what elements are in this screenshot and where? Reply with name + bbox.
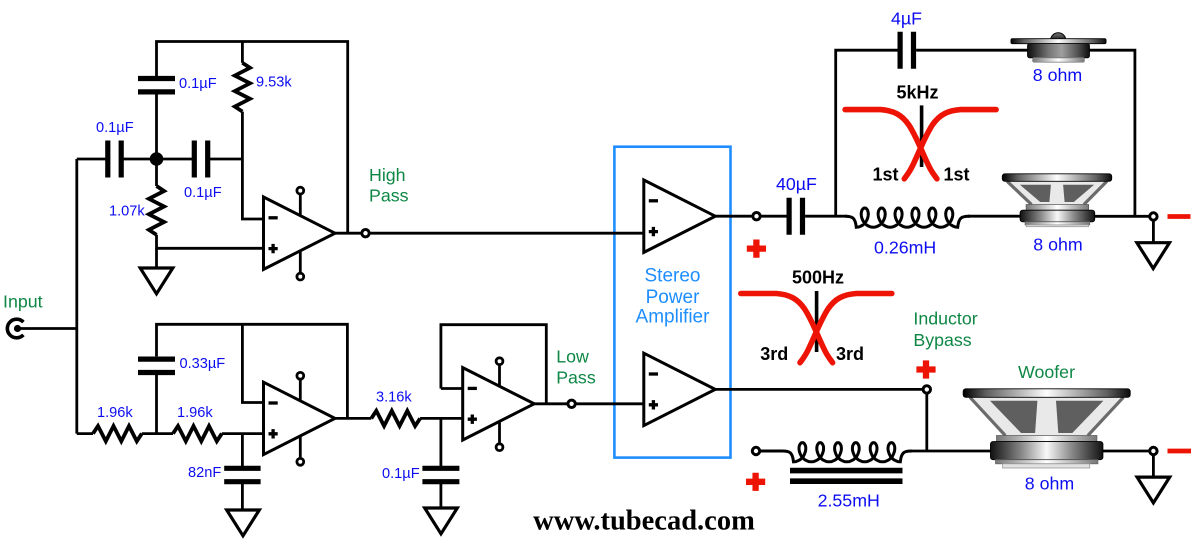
op-amp U1 (high-pass): [264, 197, 336, 269]
svg-text:8 ohm: 8 ohm: [1033, 234, 1082, 254]
node HP output circle: [362, 230, 369, 237]
crossover marker 5kHz vertical line: [920, 105, 924, 167]
svg-text:High: High: [369, 165, 406, 185]
svg-text:0.1µF: 0.1µF: [96, 120, 134, 136]
wire LP1 feedback rail: [157, 324, 348, 418]
curve 500Hz high-pass slope: [800, 294, 892, 363]
ground speaker return (bottom): [1137, 477, 1170, 503]
wire R3 to node A2: [142, 432, 173, 435]
ground LP1: [227, 510, 260, 536]
capacitor C2 0.1uF: [194, 141, 207, 178]
curve 5kHz high-pass slope: [904, 110, 996, 179]
wire ground lead HP: [155, 248, 158, 268]
svg-text:1st: 1st: [943, 165, 969, 185]
amplifier A2 (bottom channel): [644, 353, 716, 425]
wire R4 to non-inverting input: [222, 432, 264, 435]
label plus (woofer + terminal): [746, 473, 765, 491]
wire bus to R3: [77, 432, 93, 435]
wire A1 output: [715, 215, 752, 218]
wire U3 output: [533, 402, 567, 405]
curve 5kHz low-pass slope: [845, 110, 937, 179]
speaker tweeter 8 ohm: [1051, 33, 1066, 40]
svg-text:0.1µF: 0.1µF: [184, 185, 222, 201]
svg-text:4µF: 4µF: [891, 8, 922, 28]
wire U3 feedback rail: [441, 325, 546, 404]
svg-text:1st: 1st: [872, 165, 898, 185]
wire C5 to ground: [241, 484, 244, 511]
input jack: [7, 319, 23, 338]
node A junction dot: [150, 152, 164, 166]
resistor R3 1.96k: [93, 426, 142, 441]
svg-text:1.07k: 1.07k: [109, 204, 145, 220]
wire input jack to splitter: [20, 327, 77, 330]
svg-text:8 ohm: 8 ohm: [1025, 473, 1074, 493]
capacitor C8 4uF (tweeter): [900, 32, 913, 69]
capacitor C4 0.33uF (feedback): [138, 359, 175, 372]
capacitor C6 0.1uF (to ground): [422, 468, 459, 481]
speaker woofer 8 ohm: [969, 397, 1124, 435]
wire U3 inverting input: [441, 387, 463, 390]
svg-text:Amplifier: Amplifier: [636, 307, 711, 328]
capacitor C5 82nF (to ground): [224, 468, 260, 481]
wire C2 to R2 junction: [210, 158, 243, 161]
wire tweeter branch (left riser + top rail): [836, 50, 898, 216]
wire LP1 feedback to inverting input: [242, 324, 263, 402]
svg-text:www.tubecad.com: www.tubecad.com: [533, 506, 755, 537]
label minus (bottom return): [1168, 449, 1192, 454]
wire C6 to ground: [439, 484, 442, 509]
capacitor C1 0.1uF (input): [108, 141, 121, 178]
wire C3 bottom to node A: [155, 94, 158, 160]
svg-text:1.96k: 1.96k: [97, 405, 133, 421]
label minus (top return): [1168, 214, 1191, 219]
wire U2 output to R5: [335, 417, 371, 420]
wire L1 to midrange: [968, 215, 1025, 218]
wire node A to C2: [157, 158, 193, 161]
wire node B2 to C5: [241, 434, 244, 467]
svg-text:2.55mH: 2.55mH: [818, 490, 880, 510]
wire return to ground (bottom): [1152, 456, 1155, 477]
svg-text:5kHz: 5kHz: [896, 83, 938, 103]
wire woofer to return node: [1098, 450, 1149, 453]
wire HP feedback rail (output to C3/R2): [157, 42, 348, 234]
wire node A to R1: [155, 159, 158, 186]
svg-text:0.26mH: 0.26mH: [874, 238, 936, 258]
svg-text:3rd: 3rd: [760, 344, 788, 364]
wire HP output to power amp: [370, 232, 644, 235]
node A1 output circle: [753, 213, 760, 220]
resistor R5 3.16k: [371, 411, 420, 426]
svg-text:8 ohm: 8 ohm: [1033, 65, 1082, 85]
svg-text:Stereo: Stereo: [645, 266, 701, 287]
speaker midrange 8 ohm: [1006, 181, 1108, 204]
wire return to ground (top): [1152, 221, 1155, 243]
wire R5 to U3 non-inverting input: [420, 417, 463, 420]
wire A1 out to C7: [761, 215, 786, 218]
svg-text:500Hz: 500Hz: [792, 268, 844, 288]
ground HP: [140, 268, 173, 294]
resistor R4 1.96k: [173, 426, 222, 441]
inductor L1 0.26mH: [845, 208, 970, 227]
wire LP output to power amp: [576, 402, 644, 405]
svg-text:Bypass: Bypass: [913, 330, 971, 350]
op-amp U2 (low-pass 1): [264, 382, 336, 454]
wire tweeter to right riser: [1087, 50, 1135, 216]
svg-text:Low: Low: [556, 347, 589, 367]
ground LP2: [425, 508, 458, 534]
wire bypass node to woofer wire: [925, 394, 928, 451]
wire C1 to node A: [123, 158, 157, 161]
node LP output circle: [568, 400, 575, 407]
wire C7 to network: [805, 215, 847, 218]
wire R2 bottom to inverting input: [242, 112, 263, 219]
svg-text:40µF: 40µF: [776, 174, 817, 194]
svg-text:0.1µF: 0.1µF: [179, 76, 217, 92]
wire L2 to woofer: [910, 450, 995, 453]
op-amp U3 (low-pass 2): [463, 368, 535, 440]
label plus (inductor bypass): [916, 360, 935, 378]
node inductor bypass circle: [923, 386, 930, 393]
wire U1 output: [335, 232, 361, 235]
node speaker return circle (top): [1150, 213, 1157, 220]
svg-text:Pass: Pass: [369, 186, 409, 206]
svg-text:82nF: 82nF: [188, 465, 221, 481]
curve 500Hz low-pass slope: [741, 294, 833, 363]
svg-text:1.96k: 1.96k: [177, 405, 213, 421]
wire C4 to node A2: [155, 374, 158, 433]
wire node to C6: [439, 418, 442, 466]
svg-text:0.33µF: 0.33µF: [180, 356, 226, 372]
inductor L2 core bars: [790, 471, 903, 482]
svg-text:Woofer: Woofer: [1018, 362, 1075, 382]
node speaker return circle (bottom): [1150, 447, 1157, 454]
stereo power amplifier box: [614, 147, 730, 458]
amplifier A1 (top channel): [644, 180, 716, 252]
svg-text:Pass: Pass: [556, 368, 596, 388]
svg-text:3rd: 3rd: [836, 344, 864, 364]
svg-text:0.1µF: 0.1µF: [382, 466, 420, 482]
svg-text:3.16k: 3.16k: [376, 390, 412, 406]
svg-text:9.53k: 9.53k: [256, 75, 292, 91]
wire C8 to tweeter: [916, 49, 1030, 52]
wire midrange to output node: [1090, 215, 1149, 218]
capacitor C3 0.1uF (feedback, vertical): [138, 79, 175, 92]
svg-text:Power: Power: [646, 287, 701, 308]
capacitor C7 40uF: [789, 198, 802, 235]
wire R1 to non-inverting input: [157, 235, 264, 249]
label plus (amp + terminal, top): [747, 240, 766, 258]
wire A2 output to bypass node: [715, 388, 923, 391]
svg-text:Inductor: Inductor: [913, 309, 977, 329]
svg-text:Input: Input: [3, 292, 43, 312]
wire input vertical bus: [75, 159, 78, 434]
ground speaker return (top): [1137, 243, 1170, 269]
wire input to C1: [77, 158, 106, 161]
wire R2 top lead: [241, 42, 244, 63]
node L2 input circle: [752, 447, 759, 454]
resistor R1 1.07k (node A to ground): [149, 186, 164, 235]
crossover marker 500Hz vertical line: [815, 291, 819, 352]
resistor R2 9.53k (feedback): [235, 63, 250, 112]
inductor L2 2.55mH: [761, 443, 912, 462]
